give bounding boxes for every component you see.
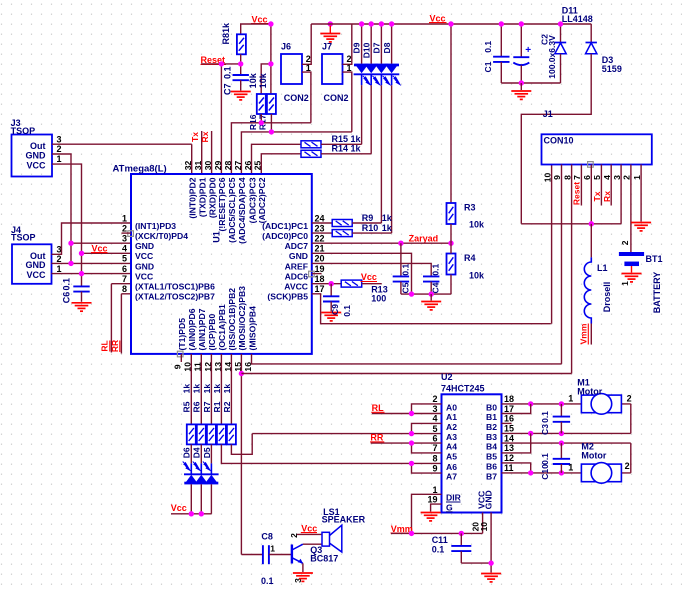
svg-text:2: 2 (57, 254, 62, 264)
wire RR net (pin8) (121, 294, 131, 354)
wire pin11 to R6 (200, 354, 202, 425)
svg-text:R6: R6 (192, 401, 202, 412)
connector J7 CON2 (322, 54, 343, 84)
svg-text:A7: A7 (446, 472, 457, 482)
svg-text:11: 11 (504, 463, 514, 473)
svg-text:2: 2 (627, 393, 632, 403)
svg-text:24: 24 (315, 213, 325, 223)
svg-text:BT1: BT1 (646, 254, 663, 264)
junction rail/pin6 (L1) (589, 221, 594, 226)
junction Vcc/C1 (499, 21, 504, 26)
wire CON10 pin 4 (610, 165, 612, 206)
svg-text:0.1: 0.1 (540, 453, 550, 465)
wire to ground (C2) (520, 83, 522, 90)
wire D4 to Vcc (200, 484, 202, 514)
wire G to ground (431, 504, 442, 511)
svg-text:6: 6 (582, 175, 592, 180)
svg-text:LL4148: LL4148 (562, 14, 593, 24)
wire CON10 pin 1 (640, 165, 642, 222)
svg-text:1: 1 (57, 264, 62, 274)
wire CON10 pin 5 (600, 165, 602, 206)
svg-text:5159: 5159 (602, 64, 622, 74)
wire J1 net (D3 to CON10 rail) (521, 54, 591, 224)
resistor R4 10k (447, 254, 456, 275)
wire pin6 to L1 (590, 224, 592, 258)
svg-text:4: 4 (432, 414, 437, 424)
svg-text:2: 2 (622, 175, 632, 180)
svg-text:(XTAL1/TOSC1)PB6: (XTAL1/TOSC1)PB6 (135, 282, 215, 292)
svg-text:C11: C11 (432, 535, 448, 545)
svg-text:Drosell: Drosell (602, 282, 612, 313)
svg-text:28: 28 (223, 161, 233, 171)
junction gnd rail/pin21 branch (409, 291, 414, 296)
svg-text:0.1: 0.1 (222, 67, 232, 80)
junction Reset/pin29 (219, 61, 224, 66)
wire pin16 to CON10 pin9 (252, 165, 562, 364)
svg-text:0.1: 0.1 (431, 264, 441, 276)
wire RL to U2 (372, 413, 442, 415)
junction B4/C10 (559, 440, 564, 445)
wire Vcc to R3 (450, 24, 452, 203)
wire RR to U2 (371, 442, 442, 444)
wire VCC row pin6/J4 pin1 (52, 273, 132, 275)
junction gnd rail/C4 (429, 291, 434, 296)
junction B0/C3 (559, 401, 564, 406)
svg-text:8: 8 (562, 175, 572, 180)
svg-text:D9: D9 (352, 42, 362, 53)
svg-text:1: 1 (57, 154, 62, 164)
wire R13 to Vcc (362, 283, 382, 285)
capacitor C2 100.0x6.3V (polarised) (520, 24, 522, 57)
svg-text:1: 1 (632, 175, 642, 180)
svg-text:1k: 1k (222, 384, 232, 394)
wire BT1 to ground (631, 266, 633, 273)
origin marker (pin2 side) (128, 231, 134, 237)
svg-text:RL: RL (100, 340, 110, 351)
svg-text:1k: 1k (212, 384, 222, 394)
wire U2 pin4 pair riser (412, 423, 442, 433)
svg-text:(ICP)PB0: (ICP)PB0 (207, 314, 217, 351)
connector J4 TSOP (12, 244, 52, 283)
svg-text:1: 1 (347, 63, 352, 73)
ground under BT1 (622, 273, 642, 275)
svg-text:D5: D5 (202, 447, 212, 458)
svg-text:32: 32 (183, 161, 193, 171)
wire Rx net (pin30) (211, 131, 213, 174)
svg-text:A3: A3 (446, 432, 457, 442)
svg-text:(ADC5/SCL)PC5: (ADC5/SCL)PC5 (227, 177, 237, 243)
svg-text:0.1: 0.1 (432, 545, 445, 555)
svg-text:Vcc: Vcc (301, 523, 317, 533)
wire D6 to Vcc (190, 484, 192, 514)
svg-text:A4: A4 (446, 442, 457, 452)
svg-text:R5: R5 (182, 401, 192, 412)
svg-text:AVCC: AVCC (284, 282, 308, 292)
svg-text:6: 6 (122, 264, 127, 274)
svg-text:D10: D10 (362, 42, 372, 58)
capacitor C5 0.1 (400, 243, 402, 276)
svg-text:9: 9 (173, 364, 183, 369)
wire R15 to D9 (321, 143, 362, 145)
svg-text:Vcc: Vcc (361, 272, 377, 282)
svg-text:23: 23 (315, 223, 325, 233)
resistor R3 10k (447, 203, 456, 224)
wire C6 to ground (81, 292, 83, 302)
svg-text:20: 20 (315, 254, 325, 264)
svg-text:B4: B4 (486, 442, 497, 452)
junction Vcc/D4 (199, 511, 204, 516)
svg-text:R4: R4 (464, 253, 476, 263)
svg-text:L1: L1 (597, 263, 608, 273)
wire GND row pin3 (71, 242, 131, 244)
resistor R15 1k (301, 141, 321, 148)
svg-text:(INT0)PD2: (INT0)PD2 (188, 177, 198, 218)
svg-text:7: 7 (432, 443, 437, 453)
wire D8 to R10 (391, 85, 393, 233)
wire J3 GND column (52, 154, 71, 263)
wire R10 to D8 (352, 232, 391, 234)
svg-text:15: 15 (504, 424, 514, 434)
svg-text:J1: J1 (543, 109, 553, 119)
svg-text:D6: D6 (182, 447, 192, 458)
svg-text:R14 1k: R14 1k (332, 144, 362, 154)
svg-text:RR: RR (110, 340, 120, 352)
svg-text:Motor: Motor (577, 386, 602, 396)
svg-text:31: 31 (193, 161, 203, 171)
ground under C9 (321, 312, 341, 314)
svg-text:(AIN0)PD6: (AIN0)PD6 (187, 308, 197, 350)
svg-text:(XCK/T0)PD4: (XCK/T0)PD4 (135, 231, 188, 241)
wire Q3 collector to speaker (303, 543, 322, 545)
svg-text:BC817: BC817 (310, 553, 338, 563)
svg-text:BATTERY: BATTERY (652, 272, 662, 314)
wire J3 VCC column (52, 164, 82, 286)
capacitor C1 0.1 (500, 24, 502, 57)
svg-text:Out: Out (30, 141, 46, 151)
svg-text:VCC: VCC (26, 161, 46, 171)
connector J3 TSOP (12, 135, 53, 177)
svg-text:4: 4 (602, 175, 612, 180)
wire J3 Out to pin32 (52, 144, 192, 173)
wire DIR to Vmm (412, 494, 442, 533)
junction RL pair (409, 411, 414, 416)
wire R2 to U2 pin5 row (231, 434, 441, 455)
junction Vcc/D9 (359, 21, 364, 26)
resistor R14 1k (301, 150, 321, 157)
speaker LS1 (322, 532, 330, 546)
svg-text:ADC7: ADC7 (285, 241, 309, 251)
junction B3/C3 (559, 431, 564, 436)
wire pin14 to R2 (230, 354, 232, 425)
connector J1 CON10 body (542, 134, 652, 164)
svg-text:Rx: Rx (602, 191, 612, 202)
svg-text:DIR: DIR (446, 493, 462, 503)
junction Vcc/C2 (519, 21, 524, 26)
svg-text:27: 27 (233, 161, 243, 171)
wire VCC row pin4 (82, 252, 132, 254)
wire B3 to M1 return (502, 404, 631, 434)
wire pin15 long column (240, 354, 242, 555)
wire pin23 to R10 (312, 232, 332, 234)
resistor R9 1k (332, 220, 352, 227)
svg-text:5: 5 (122, 254, 127, 264)
svg-text:10: 10 (479, 522, 489, 532)
wire B0 to M1 (502, 403, 582, 405)
svg-text:7: 7 (122, 274, 127, 284)
svg-text:Vcc: Vcc (430, 13, 446, 23)
svg-text:R10: R10 (362, 223, 379, 233)
wire J6 pin1 to SCL (302, 72, 311, 123)
svg-text:J7: J7 (322, 42, 332, 52)
svg-text:R9: R9 (362, 213, 374, 223)
svg-text:18: 18 (315, 274, 325, 284)
wire J6 pin2 to Vcc (302, 24, 311, 64)
svg-text:2: 2 (432, 394, 437, 404)
svg-text:A2: A2 (446, 422, 457, 432)
wire C11/GND pin to ground (461, 513, 491, 573)
svg-text:22: 22 (315, 234, 325, 244)
wire U2 pin2/pin3 pair (412, 404, 442, 414)
svg-text:VCC: VCC (135, 251, 153, 261)
svg-text:6: 6 (432, 433, 437, 443)
svg-text:C5: C5 (400, 282, 410, 293)
wire RL net (pin7) (111, 284, 131, 353)
wire Q3 emitter to ground (302, 563, 304, 572)
svg-text:21: 21 (315, 244, 325, 254)
svg-text:J6: J6 (281, 42, 291, 52)
svg-text:8: 8 (432, 454, 437, 464)
wire pin15 to C8 (241, 554, 263, 556)
junction B3/B5 riser (528, 431, 533, 436)
svg-text:(!RESET)PC6: (!RESET)PC6 (217, 177, 227, 231)
resistor R10 1k (332, 230, 352, 237)
svg-text:0.1: 0.1 (342, 305, 352, 317)
junction GND col/pin5 (68, 261, 73, 266)
wire Tx net (pin31) (201, 131, 203, 174)
wire J7 pin2 to Vcc (343, 24, 352, 64)
svg-text:GND: GND (26, 151, 47, 161)
junction C11/GND pin (488, 560, 493, 565)
wire C7 to ground (240, 80, 242, 90)
svg-text:1: 1 (122, 213, 127, 223)
svg-text:3: 3 (57, 134, 62, 144)
svg-text:3: 3 (122, 234, 127, 244)
svg-text:(T1)PD5: (T1)PD5 (177, 318, 187, 351)
svg-text:2: 2 (122, 223, 127, 233)
svg-text:TSOP: TSOP (11, 232, 36, 242)
svg-text:A0: A0 (446, 402, 457, 412)
resistor R7 1k (207, 424, 216, 444)
svg-text:C8: C8 (261, 531, 273, 541)
IC U2 74HCT245 body (442, 394, 502, 512)
junction Zaryad/C5 (398, 241, 403, 246)
wire B4 to M2 return (502, 443, 631, 473)
wire CON10 pin 6 (590, 165, 592, 224)
svg-text:14: 14 (504, 433, 514, 443)
wire pin24 to R9 (312, 222, 332, 224)
svg-text:16: 16 (504, 414, 514, 424)
resistor R2 1k (227, 424, 236, 444)
wire C1/C2 ground rail (501, 82, 560, 84)
junction SDA/R17 (269, 129, 274, 134)
diode D11 LL4148 (560, 24, 562, 43)
wire CON10 pin3/pin6 rail (521, 223, 621, 225)
pin 9 stub (U1) (180, 354, 182, 362)
svg-text:(RXD)PD0: (RXD)PD0 (207, 177, 217, 218)
inductor L1 Drosell (584, 257, 591, 323)
wire SDA net (pin27) (241, 132, 351, 174)
capacitor C6 0.1 (73, 285, 89, 287)
svg-text:4: 4 (122, 244, 127, 254)
capacitor C11 0.1 (460, 533, 462, 546)
resistor R5 1k (187, 424, 196, 444)
svg-text:U1: U1 (212, 231, 222, 243)
svg-text:13: 13 (504, 443, 514, 453)
wire pin25 to R14 (261, 154, 301, 174)
svg-text:7: 7 (572, 175, 582, 180)
svg-text:3: 3 (432, 404, 437, 414)
wire U2 pin9 pair riser (412, 463, 442, 473)
wire R1 to U2 pin8 row (221, 444, 441, 463)
wire Vcc rail (311, 23, 591, 25)
junction Vcc/R3 (448, 21, 453, 26)
svg-text:1: 1 (270, 543, 275, 553)
svg-text:D8: D8 (382, 42, 392, 53)
ground under C4 (421, 301, 441, 303)
svg-text:R15 1k: R15 1k (332, 134, 362, 144)
ground under C6 (72, 302, 92, 304)
capacitor C3 0.1 (560, 404, 562, 417)
junction Vcc/D7 (379, 21, 384, 26)
wire R17 to SDA (270, 114, 272, 132)
wire C9 to ground (330, 302, 332, 312)
svg-text:29: 29 (213, 161, 223, 171)
origin marker (pin9 side) (177, 351, 183, 357)
origin marker (pin19 side) (309, 271, 315, 277)
wire Vcc to D10 (370, 24, 372, 64)
svg-text:1k: 1k (202, 384, 212, 394)
svg-text:5: 5 (432, 424, 437, 434)
wire pin13 to R1 (220, 354, 222, 425)
wire R to D6 (190, 444, 192, 463)
svg-text:(MISO)PB4: (MISO)PB4 (247, 306, 257, 351)
svg-text:9: 9 (432, 463, 437, 473)
svg-text:Motor: Motor (581, 451, 606, 461)
ground at CON10 pin1 (631, 222, 651, 224)
motor M1 (581, 395, 621, 413)
wire Vcc to D9 (361, 24, 363, 64)
svg-text:VCC: VCC (135, 272, 153, 282)
svg-text:Vcc: Vcc (92, 243, 108, 253)
capacitor C8 0.1 (262, 545, 264, 564)
wire Zaryad net (pin22) (312, 242, 451, 244)
svg-text:GND: GND (135, 241, 154, 251)
wire CON10 pin 2 (630, 165, 632, 253)
wire B1 riser (502, 404, 531, 414)
svg-text:Vcc: Vcc (171, 503, 187, 513)
svg-text:GND: GND (483, 490, 493, 509)
wire R9 to D7 (352, 222, 381, 224)
junction pin15/CON10 pin8 (239, 371, 244, 376)
wire pin15 to CON10 pin8 (241, 165, 571, 374)
junction Vcc/D11 (558, 21, 563, 26)
resistor R6 1k (197, 424, 206, 444)
svg-text:B2: B2 (486, 422, 497, 432)
wire Reset net (201, 54, 241, 173)
svg-text:(ISS/OC1B)PB2: (ISS/OC1B)PB2 (227, 288, 237, 351)
capacitor C4 0.1 (423, 275, 439, 277)
junction Vcc/R17 (268, 61, 273, 66)
svg-text:+: + (525, 45, 531, 56)
svg-text:A6: A6 (446, 462, 457, 472)
junction VCC col/pin4 (79, 251, 84, 256)
svg-text:R81k: R81k (221, 22, 231, 45)
wire Vcc under LEDs (171, 513, 211, 515)
svg-text:1: 1 (568, 462, 573, 472)
LED group D6 D4 D5 symbols (190, 463, 192, 474)
svg-text:VCC: VCC (26, 270, 46, 280)
wire B5 riser (502, 433, 531, 453)
wire SCL net (pin28) (231, 123, 311, 174)
junction GND col/pin3 (68, 241, 73, 246)
wire Vcc to speaker (297, 533, 323, 535)
svg-text:17: 17 (504, 404, 514, 414)
junction B7/C10 (559, 470, 564, 475)
battery BT1 (619, 252, 644, 256)
resistor R17 10k (267, 94, 276, 114)
junction Reset/R8/C7 (238, 61, 243, 66)
junction RR pair (409, 440, 414, 445)
motor M2 (581, 464, 621, 482)
wire R4 leads (450, 243, 452, 294)
wire R to D4 (200, 444, 202, 463)
svg-text:AREF: AREF (285, 261, 308, 271)
svg-text:ADC6: ADC6 (285, 272, 309, 282)
ground under G (421, 512, 441, 514)
connector J6 CON2 (281, 54, 302, 84)
svg-text:0.1: 0.1 (483, 41, 493, 53)
svg-text:17: 17 (315, 284, 325, 294)
svg-text:U2: U2 (441, 372, 453, 382)
resistor R13 100 (341, 280, 362, 287)
svg-text:C9: C9 (330, 304, 340, 315)
svg-text:Zaryad: Zaryad (409, 234, 439, 244)
svg-text:(MOSI/OC2)PB3: (MOSI/OC2)PB3 (237, 286, 247, 351)
wire pin20 to C4 (312, 263, 431, 276)
wire J4 Out to pin1 (52, 223, 132, 254)
diode D3 5159 (590, 24, 592, 43)
svg-text:19: 19 (427, 495, 437, 505)
svg-text:18: 18 (504, 394, 514, 404)
svg-text:GND: GND (26, 260, 47, 270)
wire R3 to Zaryad (450, 224, 452, 243)
svg-text:C1: C1 (483, 61, 493, 72)
pin 19 stub (U1) (312, 273, 322, 275)
svg-text:19: 19 (315, 264, 325, 274)
svg-text:2: 2 (625, 461, 630, 471)
ground under U2 GND (481, 573, 501, 575)
pin 16 stub (U2) (502, 422, 512, 424)
svg-text:(ADC0)PC0: (ADC0)PC0 (262, 231, 308, 241)
svg-text:(ADC2)PC2: (ADC2)PC2 (257, 177, 267, 223)
svg-text:0.1: 0.1 (61, 278, 71, 291)
svg-text:30: 30 (203, 161, 213, 171)
svg-text:D7: D7 (372, 42, 382, 53)
svg-text:2: 2 (620, 240, 630, 245)
junction Vmm/DIR (409, 531, 414, 536)
svg-text:CON10: CON10 (544, 135, 574, 145)
svg-text:12: 12 (504, 453, 514, 463)
